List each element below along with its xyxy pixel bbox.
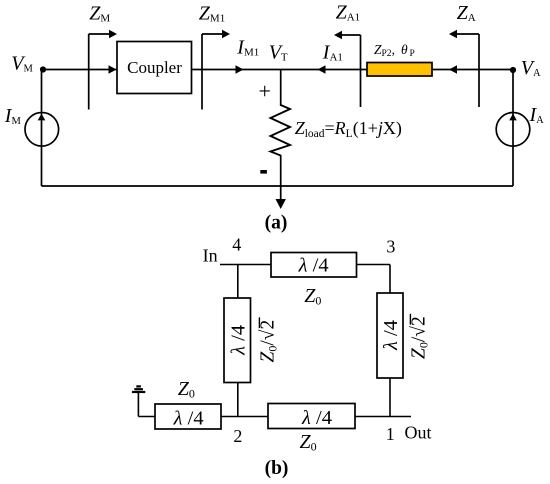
svg-text:IA1: IA1 bbox=[322, 41, 343, 63]
svg-text:λ /4: λ /4 bbox=[298, 254, 329, 276]
impedance arrow Z_A1 bbox=[334, 31, 361, 107]
wire: ground to stub line bbox=[138, 416, 155, 418]
current source I_M bbox=[25, 113, 59, 147]
wire: resistor bottom through bus to arrow bbox=[280, 155, 282, 202]
svg-text:ZM: ZM bbox=[89, 3, 110, 25]
branch line left vertical (lambda/4) bbox=[224, 298, 251, 383]
svg-text:Z0: Z0 bbox=[300, 431, 317, 454]
svg-text:λ /4: λ /4 bbox=[380, 320, 402, 351]
label minus bbox=[260, 170, 267, 174]
svg-text:(b): (b) bbox=[265, 458, 289, 479]
svg-text:λ /4: λ /4 bbox=[173, 407, 204, 429]
impedance arrow Z_M1 bbox=[202, 30, 230, 110]
wire: left branch bottom to node 2 bbox=[237, 383, 239, 417]
svg-text:1: 1 bbox=[386, 424, 395, 444]
wire: node 4 down to left branch bbox=[237, 265, 239, 299]
wire: orange line to V_A bbox=[432, 69, 513, 71]
svg-text:IM1: IM1 bbox=[236, 36, 259, 58]
wire: In to top-left branch line bbox=[220, 264, 271, 266]
wire: arrowhead I_M1 direction bbox=[236, 65, 244, 73]
svg-text:ZA1: ZA1 bbox=[336, 1, 361, 23]
svg-text:Coupler: Coupler bbox=[127, 58, 182, 77]
current source I_A bbox=[496, 113, 530, 147]
wire: main top bus from V_M to coupler bbox=[43, 69, 117, 71]
svg-text:+: + bbox=[259, 79, 271, 104]
svg-text:ZA: ZA bbox=[457, 2, 476, 24]
svg-text:Z0: Z0 bbox=[178, 378, 195, 401]
wire: arrowhead I_A1 direction (left) bbox=[318, 65, 326, 73]
wire: right vertical from V_A down bbox=[512, 70, 514, 186]
svg-text:ZP2, θ P: ZP2, θ P bbox=[374, 42, 415, 59]
svg-text:Z0: Z0 bbox=[304, 285, 321, 308]
svg-text:ZM1: ZM1 bbox=[199, 3, 225, 25]
svg-text:(a): (a) bbox=[265, 213, 288, 234]
wire: stub to bottom branch (node 2) bbox=[221, 416, 268, 418]
impedance arrow Z_A bbox=[449, 30, 479, 107]
node V_T junction wire down bbox=[280, 70, 282, 107]
wire: arrowhead into coupler bbox=[109, 65, 117, 73]
branch line bottom (lambda/4, Z0) bbox=[268, 404, 355, 429]
svg-text:3: 3 bbox=[386, 237, 395, 257]
svg-text:Out: Out bbox=[405, 422, 432, 442]
wire: bottom bus bbox=[42, 185, 514, 187]
node V_M bbox=[40, 66, 46, 72]
node V_A bbox=[510, 67, 516, 73]
svg-text:2: 2 bbox=[233, 426, 242, 446]
wire: node 3 down to right branch bbox=[389, 265, 391, 294]
impedance arrow Z_M bbox=[89, 30, 117, 110]
transmission line Z_P2 (orange) bbox=[367, 63, 432, 77]
branch line top (lambda/4, Z0) bbox=[271, 253, 357, 278]
svg-text:λ /4: λ /4 bbox=[301, 407, 332, 429]
ground bbox=[132, 386, 145, 416]
svg-text:VM: VM bbox=[11, 53, 33, 75]
wire: left vertical from V_M down bbox=[41, 70, 43, 187]
svg-text:λ /4: λ /4 bbox=[227, 325, 249, 356]
label Z_0/sqrt2 (right branch) bbox=[409, 314, 431, 359]
wire: coupler output to orange line bbox=[192, 69, 367, 71]
svg-text:In: In bbox=[203, 246, 218, 266]
wire: top branch to node 3 bbox=[357, 264, 391, 266]
label Z_0/sqrt2 (left branch) bbox=[258, 317, 280, 362]
wire: right branch bottom to node 1 bbox=[389, 378, 391, 417]
wire: bottom branch to Out (node 1) bbox=[355, 416, 411, 418]
svg-text:Z0/√2: Z0/√2 bbox=[258, 320, 280, 363]
svg-text:Z0/√2: Z0/√2 bbox=[409, 316, 431, 359]
branch line right vertical (lambda/4) bbox=[377, 293, 403, 378]
branch line stub (lambda/4) bbox=[155, 404, 221, 429]
arrow to ground (a) bbox=[276, 199, 286, 209]
wire: arrowhead toward orange line (left) bbox=[449, 65, 457, 73]
svg-text:IM: IM bbox=[4, 105, 22, 127]
resistor Z_load bbox=[271, 105, 291, 156]
svg-text:4: 4 bbox=[232, 235, 241, 255]
coupler U1 bbox=[117, 42, 192, 94]
svg-text:IA: IA bbox=[529, 104, 545, 126]
svg-text:VA: VA bbox=[521, 57, 541, 79]
svg-text:VT: VT bbox=[269, 41, 288, 63]
svg-text:Zload=RL(1+jX): Zload=RL(1+jX) bbox=[295, 118, 402, 140]
